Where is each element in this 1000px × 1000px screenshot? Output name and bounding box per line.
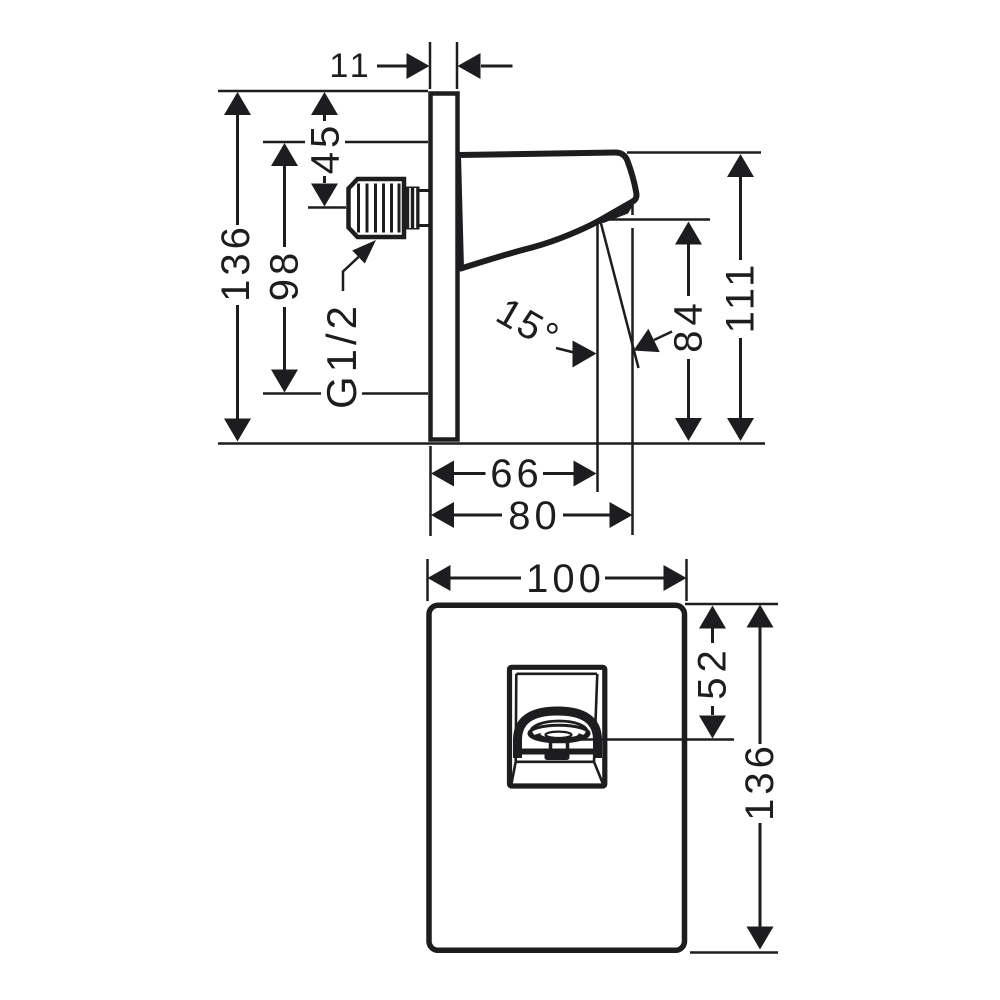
dimension 84 (667, 222, 711, 442)
svg-text:52: 52 (691, 645, 735, 700)
dimension 80 (431, 494, 633, 538)
opening inner perspective lines (512, 674, 603, 784)
dimension 11 (plate thickness) (329, 42, 512, 89)
outlet small tab (551, 742, 568, 753)
reference line from outlet centre (52) (565, 738, 734, 741)
svg-text:111: 111 (719, 261, 763, 334)
dimension 98 (263, 142, 429, 394)
dimension 66 (431, 446, 597, 536)
svg-text:66: 66 (490, 452, 543, 496)
svg-text:11: 11 (329, 47, 372, 85)
spout body (side view) (458, 153, 636, 269)
arch over outlet (518, 711, 598, 758)
svg-text:136: 136 (738, 742, 782, 821)
dimension 100 (428, 557, 687, 601)
svg-text:80: 80 (508, 494, 561, 538)
G1/2 thread nipple body (349, 179, 405, 237)
thread collar block (404, 187, 420, 230)
spout mouth lip wedge (597, 200, 634, 223)
dark bottom tab (545, 753, 570, 761)
svg-text:84: 84 (667, 298, 711, 353)
spout opening outer frame (510, 667, 605, 786)
dimension 136 (left, total height) (214, 91, 765, 444)
vertical projection line at 66 (water axis) (596, 222, 599, 492)
dimension 52 (685, 604, 778, 739)
thread stripes (359, 184, 400, 233)
reference line spout lip (84) (601, 218, 710, 221)
thread stub to plate (420, 189, 430, 192)
vertical projection line at 80 (spout tip) (631, 204, 634, 215)
svg-text:45: 45 (304, 122, 348, 175)
dimension 45 (304, 92, 348, 208)
svg-text:136: 136 (214, 223, 258, 302)
dimension 111 (719, 154, 763, 441)
slanted 15 degree line (601, 222, 639, 369)
reference line top of spout (111) (627, 151, 761, 154)
svg-text:G1/2: G1/2 (318, 302, 365, 409)
svg-text:100: 100 (526, 557, 605, 601)
wall plate (side view) (431, 94, 458, 440)
label G1/2 with leader arrow (318, 240, 376, 409)
plate front view (429, 605, 685, 950)
dimension 136 (front view) (690, 605, 782, 953)
base bar (521, 749, 598, 755)
15 degree annotation (489, 290, 672, 367)
svg-text:98: 98 (263, 249, 307, 302)
outlet ellipses (mousseur) (531, 721, 587, 742)
